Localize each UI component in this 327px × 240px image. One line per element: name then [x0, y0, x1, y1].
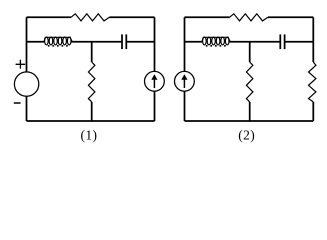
svg-text:(2): (2) [238, 128, 255, 143]
capacitor C1 plate left [121, 34, 123, 49]
wire middle branch upper c1 [91, 42, 93, 62]
wire right edge lower c1 [154, 91, 156, 121]
wire middle branch lower c2 [249, 102, 251, 121]
wire top-right c1 [109, 16, 154, 18]
wire left edge upper c2 [184, 17, 186, 71]
wire top-left c2 [185, 16, 230, 18]
svg-text:(1): (1) [81, 128, 98, 143]
capacitor C1 plate right [125, 34, 127, 49]
wire left edge lower c2 [184, 91, 186, 121]
arrow of I2 [183, 79, 185, 88]
wire right edge lower c2 [312, 102, 314, 121]
arrow of I1 [153, 79, 155, 88]
wire second rail left c1 [27, 41, 45, 43]
resistor R4 middle of circuit 2 [246, 62, 253, 102]
wire bottom c1 [27, 120, 155, 122]
wire second rail middle c1 [71, 41, 121, 43]
wire second rail right c1 [127, 41, 155, 43]
wire right edge upper c2 [312, 17, 314, 62]
current source I1 [145, 71, 165, 91]
wire second rail middle c2 [229, 41, 279, 43]
wire second rail right c2 [285, 41, 313, 43]
resistor R2 middle of circuit 1 [88, 62, 95, 102]
inductor L1 [44, 37, 45, 41]
wire second rail left c2 [185, 41, 203, 43]
capacitor C2 plate right [284, 34, 286, 49]
wire bottom c2 [185, 120, 314, 122]
wire right edge upper c1 [154, 17, 156, 71]
plus sign of V1 [16, 60, 26, 69]
voltage source V1 [14, 72, 38, 96]
wire left edge upper c1 [26, 17, 28, 72]
resistor R3 top of circuit 2 [230, 14, 268, 21]
wire top-right c2 [268, 16, 313, 18]
minus sign of V1 [14, 102, 21, 104]
capacitor C2 plate left [279, 34, 281, 49]
resistor R5 right of circuit 2 [309, 62, 316, 102]
inductor L2 [202, 37, 203, 41]
current source I2 [175, 71, 195, 91]
resistor R1 top of circuit 1 [71, 14, 109, 21]
wire middle branch upper c2 [249, 42, 251, 62]
wire top-left c1 [27, 16, 72, 18]
wire left edge lower c1 [26, 96, 28, 121]
wire middle branch lower c1 [91, 102, 93, 121]
